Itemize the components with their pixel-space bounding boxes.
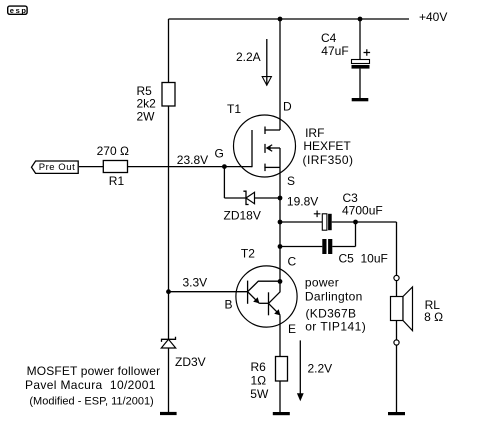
wire R5 top lead [168, 19, 170, 83]
zener ZD18V [224, 191, 280, 204]
svg-text:R1: R1 [109, 174, 125, 188]
svg-text:R6: R6 [251, 360, 267, 374]
svg-text:T2: T2 [241, 247, 255, 261]
terminal output bottom [394, 340, 399, 345]
wire emitter to R6 [279, 315, 281, 356]
node rail/C4 junction [358, 17, 363, 22]
svg-text:or TIP141): or TIP141) [305, 319, 366, 333]
svg-text:(IRF350): (IRF350) [303, 153, 354, 167]
svg-text:3.3V: 3.3V [183, 276, 208, 290]
svg-text:power: power [305, 276, 339, 290]
wire output to speaker [396, 222, 398, 275]
ground C4 [352, 98, 369, 101]
svg-text:ZD18V: ZD18V [224, 209, 261, 223]
svg-text:C4: C4 [321, 31, 337, 45]
svg-text:2W: 2W [137, 110, 156, 124]
svg-text:E: E [288, 322, 296, 336]
svg-text:HEXFET: HEXFET [303, 139, 351, 153]
node gate junction [222, 164, 227, 169]
svg-text:T1: T1 [227, 102, 241, 116]
node source junction [278, 196, 283, 201]
svg-text:C: C [288, 254, 297, 268]
svg-text:4700uF: 4700uF [342, 204, 383, 218]
wire drain vertical [279, 19, 281, 130]
ground RL [388, 412, 405, 415]
connector Pre Out [32, 161, 79, 173]
capacitor C3 [280, 211, 397, 231]
svg-text:47uF: 47uF [321, 44, 348, 58]
node C3 left junction [278, 220, 283, 225]
wire terminal to ground [396, 345, 398, 412]
resistor R6 [276, 357, 288, 382]
zener ZD3V [161, 292, 175, 413]
current arrow 2.2V [297, 340, 304, 401]
terminal output top [394, 275, 399, 280]
svg-text:S: S [287, 174, 295, 188]
transistor T2 Darlington [236, 266, 297, 327]
wire +40V supply rail [169, 18, 410, 20]
resistor R1 [103, 161, 127, 173]
capacitor C5 [280, 222, 356, 254]
wire bias chain vertical (R5 bottom to 3.3V node) [168, 106, 170, 292]
svg-text:+40V: +40V [419, 10, 447, 24]
svg-text:IRF: IRF [305, 126, 324, 140]
svg-text:8 Ω: 8 Ω [424, 310, 443, 324]
svg-text:MOSFET power follower: MOSFET power follower [27, 364, 161, 378]
svg-text:2.2V: 2.2V [308, 362, 333, 376]
svg-text:G: G [215, 147, 224, 161]
wire R6 to ground [279, 381, 281, 413]
svg-text:270 Ω: 270 Ω [97, 144, 129, 158]
svg-text:1Ω: 1Ω [251, 374, 267, 388]
node C3/C5 output junction [353, 220, 358, 225]
ground R6 [273, 412, 290, 415]
svg-text:Darlington: Darlington [305, 290, 363, 304]
resistor R5 [162, 83, 175, 107]
ESP logo [8, 6, 28, 15]
svg-text:Pavel Macura 10/2001: Pavel Macura 10/2001 [25, 378, 156, 392]
node 3.3V junction [166, 289, 171, 294]
current arrow 2.2A [262, 39, 271, 86]
capacitor C4 [352, 19, 371, 98]
svg-text:(Modified - ESP, 11/2001): (Modified - ESP, 11/2001) [29, 395, 153, 407]
svg-text:2k2: 2k2 [137, 97, 157, 111]
wire gate node to zener [223, 167, 225, 198]
wire gate lead [224, 166, 252, 168]
svg-text:B: B [225, 298, 233, 312]
svg-text:5W: 5W [250, 387, 269, 401]
transistor T1 MOSFET [234, 115, 296, 177]
ground ZD3V [160, 412, 177, 415]
wire terminal to speaker [396, 281, 398, 297]
svg-text:23.8V: 23.8V [177, 153, 208, 167]
svg-text:D: D [283, 100, 292, 114]
wire Pre Out to R1 [79, 166, 103, 168]
svg-text:Pre Out: Pre Out [39, 162, 76, 173]
wire base 3.3V [169, 291, 248, 293]
node C5 left junction [278, 244, 283, 249]
speaker RL [391, 287, 413, 331]
svg-text:ZD3V: ZD3V [175, 355, 206, 369]
svg-text:esp: esp [10, 6, 28, 15]
wire source vertical (S to T2 collector) [279, 167, 281, 281]
svg-text:19.8V: 19.8V [287, 195, 318, 209]
wire R1 to gate node [128, 166, 225, 168]
svg-text:2.2A: 2.2A [236, 50, 261, 64]
node rail/drain junction [278, 17, 283, 22]
svg-text:C5 10uF: C5 10uF [339, 252, 388, 266]
wire speaker to bottom terminal [396, 321, 398, 340]
